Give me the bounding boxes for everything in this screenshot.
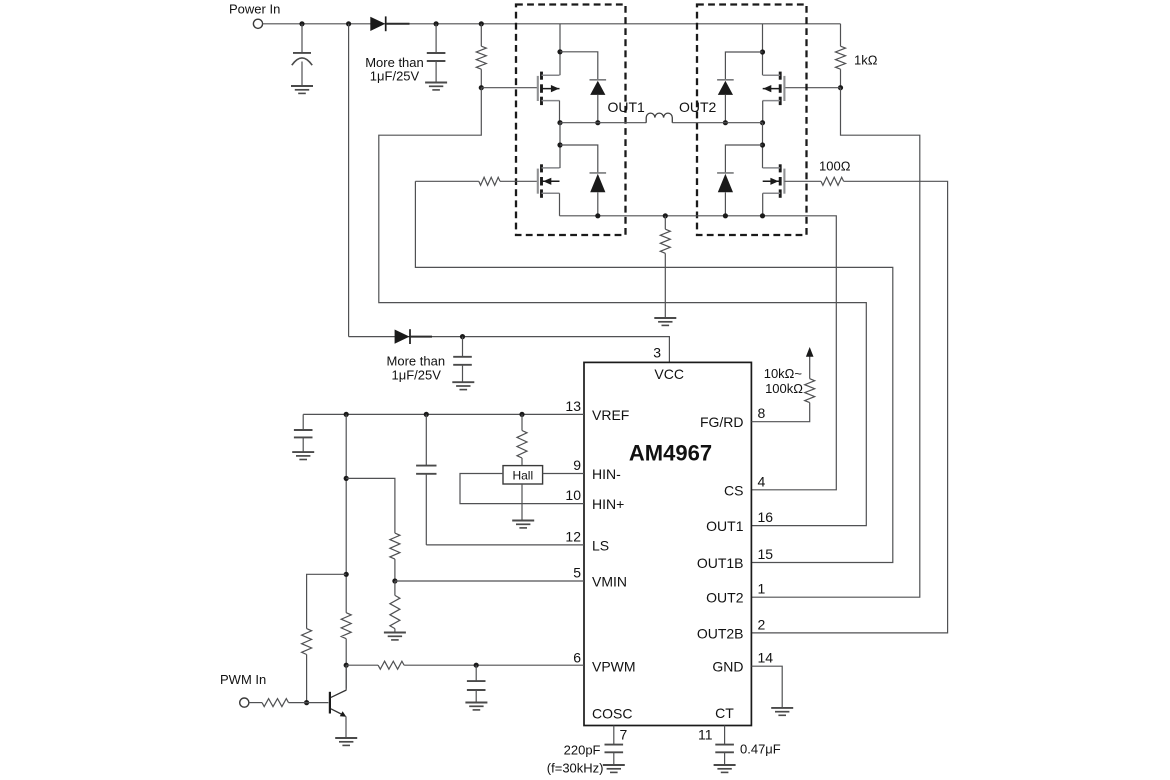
resistor VMIN upper divider: [390, 533, 400, 559]
svg-text:VMIN: VMIN: [592, 574, 627, 590]
resistor Hall pull-up: [521, 414, 523, 430]
resistor gate pull-up left: [476, 46, 486, 69]
junction VMIN node: [392, 578, 397, 583]
svg-text:10kΩ~: 10kΩ~: [764, 366, 803, 381]
diode body D3 upper-left: [560, 52, 598, 80]
svg-text:LS: LS: [592, 537, 609, 553]
junction D6 anode on rail: [723, 213, 728, 218]
wire VREF vertical chain: [345, 414, 347, 612]
svg-text:14: 14: [758, 650, 774, 666]
ground for VMIN divider: [384, 632, 406, 634]
resistor PWM series: [249, 702, 262, 704]
wire VCC feed: [349, 337, 670, 363]
svg-text:100Ω: 100Ω: [819, 159, 851, 174]
wire HIN+ loop pin10: [460, 474, 584, 504]
svg-text:1μF/25V: 1μF/25V: [370, 69, 420, 84]
wire GND pin14: [751, 666, 782, 708]
component Hall sensor box: [503, 466, 543, 484]
svg-text:5: 5: [573, 565, 581, 581]
transistor Q1 top-left NMOS: [537, 76, 539, 101]
op-amp U1 AM4967 IC body: [584, 362, 751, 725]
diode D1 power rail: [370, 17, 385, 31]
node gate OUT2-side left junction: [479, 85, 484, 90]
transistor Q5 NPN: [329, 692, 331, 714]
wire Q1 top stub corner: [559, 74, 561, 76]
terminal PWM In: [240, 698, 249, 707]
svg-text:10: 10: [565, 487, 581, 503]
svg-text:COSC: COSC: [592, 706, 632, 722]
junction VREF to Hall pull-up: [519, 412, 524, 417]
ground for C7: [603, 764, 625, 766]
svg-text:FG/RD: FG/RD: [700, 414, 744, 430]
diode D2 VCC: [395, 330, 410, 344]
svg-text:AM4967: AM4967: [629, 441, 712, 466]
wire OUT2 to Q4 drain: [762, 123, 764, 168]
svg-text:1μF/25V: 1μF/25V: [391, 367, 441, 382]
ground for Q5 emitter: [335, 737, 357, 739]
junction on power rail at gate resistor left: [479, 21, 484, 26]
wire VREF rail pin13: [303, 413, 584, 415]
ground for pin GND: [771, 707, 793, 709]
svg-text:13: 13: [565, 398, 581, 414]
junction Q1 source on OUT1: [557, 120, 562, 125]
svg-text:100kΩ: 100kΩ: [765, 381, 803, 396]
junction base node: [304, 700, 309, 705]
wire drain Q3 from rail: [762, 24, 764, 75]
ground for C2: [425, 82, 447, 84]
svg-text:PWM In: PWM In: [220, 672, 266, 687]
wire gate to Q1: [481, 87, 538, 89]
junction D5 anode on OUT2: [723, 120, 728, 125]
transistor Q3 top-right NMOS: [783, 76, 785, 101]
capacitor C1 polarized input cap: [301, 24, 303, 53]
wire collector to VPWM node: [345, 665, 347, 690]
diode body D6 lower-right: [725, 145, 762, 173]
wire Q2 source to bottom rail: [559, 193, 561, 216]
svg-text:OUT1B: OUT1B: [697, 555, 744, 571]
transistor Q2 bottom-left NMOS: [537, 169, 539, 194]
wire Hall ground lead: [521, 484, 523, 520]
svg-text:More than: More than: [387, 353, 446, 368]
capacitor C7 COSC 220pF: [613, 726, 615, 745]
wire VMIN divider top: [346, 478, 395, 533]
ground for C6: [465, 702, 487, 704]
wire Q3 source to OUT2: [762, 101, 764, 123]
svg-text:8: 8: [758, 405, 766, 421]
svg-text:OUT2: OUT2: [706, 590, 744, 606]
wire Q1 source to OUT1: [559, 101, 561, 123]
ground for C8: [714, 764, 736, 766]
wire gate Q2 to resistor: [500, 180, 537, 182]
svg-text:6: 6: [573, 650, 581, 666]
capacitor C8 CT 0.47uF: [724, 726, 726, 745]
svg-text:220pF: 220pF: [564, 743, 601, 758]
wire OUT1B route pin15: [415, 181, 892, 562]
capacitor C5 LS: [425, 414, 427, 465]
dashed box left half-bridge module: [516, 5, 626, 236]
svg-text:7: 7: [620, 727, 628, 743]
svg-text:CS: CS: [724, 482, 743, 498]
wire FG/RD pin8: [751, 403, 809, 422]
junction VREF to divider chain: [344, 412, 349, 417]
junction gate right: [838, 85, 843, 90]
diode body D5 upper-right: [725, 52, 762, 80]
junction D3 anode on OUT1: [595, 120, 600, 125]
transistor Q4 bottom-right NMOS: [783, 169, 785, 194]
wire base pull branch: [307, 574, 347, 628]
wire Q4 source to bottom rail: [762, 193, 764, 216]
resistor VPWM series: [346, 664, 378, 666]
wire HIN- pin9: [543, 473, 584, 475]
resistor base pull-up: [302, 629, 312, 655]
ground for C4: [292, 451, 314, 453]
junction on power rail at C1: [299, 21, 304, 26]
capacitor C2 More than 1uF/25V: [435, 24, 437, 53]
svg-text:OUT2B: OUT2B: [697, 625, 744, 641]
svg-text:11: 11: [698, 727, 713, 743]
resistor current sense: [664, 216, 666, 229]
terminal Power In: [253, 19, 262, 28]
wire LS pin12: [426, 544, 584, 546]
junction on power rail to VCC branch: [346, 21, 351, 26]
resistor 1k ohm gate pull-up right: [840, 24, 842, 46]
svg-text:OUT2: OUT2: [679, 99, 717, 115]
svg-text:1: 1: [758, 581, 766, 597]
svg-text:9: 9: [573, 457, 581, 473]
wire vertical branch to VCC diode: [348, 24, 350, 337]
svg-text:4: 4: [758, 473, 766, 489]
svg-text:16: 16: [758, 509, 774, 525]
ground for C3: [452, 381, 474, 383]
wire top power rail: [263, 23, 841, 25]
junction chain at VPWM node: [344, 663, 349, 668]
resistor 100 ohm gate Q4: [821, 177, 844, 185]
wire OUT1 to Q2 drain: [559, 123, 561, 168]
ground for C1: [291, 85, 313, 87]
wire OUT2B route pin2: [751, 181, 947, 633]
junction chain to VMIN divider: [344, 476, 349, 481]
wire OUT1 route pin16: [379, 88, 867, 526]
wire bottom rail and CS route pin4: [560, 216, 837, 490]
svg-text:12: 12: [565, 528, 581, 544]
junction drain node Q1: [557, 49, 562, 54]
capacitor C6 VPWM filter: [475, 665, 477, 681]
diode body D4 lower-left: [560, 145, 598, 173]
arrow to supply FG/RD: [806, 347, 814, 357]
wire OUT2 route pin1: [751, 88, 919, 598]
svg-text:OUT1: OUT1: [706, 518, 744, 534]
svg-text:VCC: VCC: [654, 366, 684, 382]
svg-text:Power In: Power In: [229, 2, 280, 17]
junction D4 anode on rail: [595, 213, 600, 218]
svg-text:15: 15: [758, 546, 774, 562]
resistor VMIN lower divider: [394, 581, 396, 595]
wire gate Q4 to 100ohm: [784, 180, 821, 182]
node OUT2 wire: [672, 122, 762, 124]
svg-text:CT: CT: [715, 705, 734, 721]
junction on power rail at C2: [434, 21, 439, 26]
svg-text:OUT1: OUT1: [608, 99, 646, 115]
junction sense resistor on rail: [663, 213, 668, 218]
svg-text:VREF: VREF: [592, 407, 629, 423]
junction Q2 drain node: [557, 142, 562, 147]
junction drain node Q3: [760, 49, 765, 54]
junction chain to base pull branch: [344, 572, 349, 577]
svg-text:HIN+: HIN+: [592, 496, 624, 512]
wire gate to Q3: [784, 87, 840, 89]
junction VPWM cap node: [474, 663, 479, 668]
node OUT1 wire: [560, 122, 646, 124]
wire VMIN pin5: [395, 580, 584, 582]
junction C3 on VCC feed: [460, 334, 465, 339]
svg-text:1kΩ: 1kΩ: [854, 53, 878, 68]
svg-text:VPWM: VPWM: [592, 659, 636, 675]
junction VREF to LS cap: [424, 412, 429, 417]
resistor gate Q2: [479, 177, 500, 185]
svg-text:GND: GND: [712, 659, 743, 675]
dashed box right half-bridge module: [697, 5, 807, 236]
svg-text:(f=30kHz): (f=30kHz): [547, 761, 604, 776]
junction Q4 drain node: [760, 142, 765, 147]
svg-text:3: 3: [653, 345, 661, 361]
ground for Hall sensor: [512, 520, 534, 522]
wire drain Q1 from rail: [559, 24, 561, 75]
capacitor C4 VREF bypass: [302, 414, 304, 430]
capacitor C3 More than 1uF/25V (VCC): [462, 337, 464, 357]
wire emitter lead: [345, 716, 347, 737]
svg-text:0.47μF: 0.47μF: [740, 742, 781, 757]
svg-text:HIN-: HIN-: [592, 466, 621, 482]
resistor FG/RD pull-up 10k-100k: [805, 379, 815, 403]
junction Q3 source on OUT2: [760, 120, 765, 125]
svg-text:Hall: Hall: [512, 469, 533, 483]
ground for sense resistor: [654, 317, 676, 319]
junction Q4 source on rail: [760, 213, 765, 218]
svg-text:2: 2: [758, 616, 766, 632]
inductor motor coil: [646, 113, 672, 123]
